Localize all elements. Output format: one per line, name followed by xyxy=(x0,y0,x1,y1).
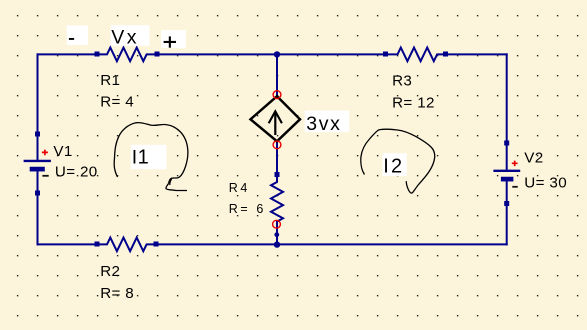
svg-text:R2: R2 xyxy=(100,263,120,280)
svg-text:3vx: 3vx xyxy=(306,113,341,135)
svg-text:R= 8: R= 8 xyxy=(100,285,134,302)
svg-text:R= 12: R= 12 xyxy=(392,94,435,111)
svg-text:I: I xyxy=(132,146,137,168)
svg-text:R= 6: R= 6 xyxy=(229,202,266,216)
svg-text:R4: R4 xyxy=(229,181,250,195)
svg-text:R1: R1 xyxy=(100,72,120,89)
svg-text:V1: V1 xyxy=(53,143,72,160)
svg-text:R3: R3 xyxy=(392,72,412,89)
svg-text:1: 1 xyxy=(138,146,149,168)
svg-text:U= 30: U= 30 xyxy=(524,174,567,191)
svg-text:U= 20: U= 20 xyxy=(55,163,98,180)
svg-text:R= 4: R= 4 xyxy=(100,93,134,110)
svg-text:V2: V2 xyxy=(524,150,543,167)
svg-text:I2: I2 xyxy=(383,155,404,177)
svg-text:Vx: Vx xyxy=(111,26,139,48)
